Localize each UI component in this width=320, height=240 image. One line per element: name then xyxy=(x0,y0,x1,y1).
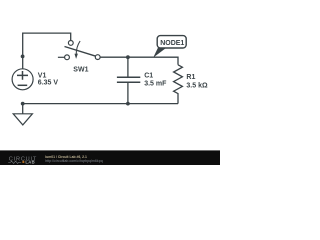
voltage source V1 xyxy=(12,69,33,90)
svg-text:3.5 mF: 3.5 mF xyxy=(144,81,167,88)
node NODE1 junction dot capacitor top xyxy=(126,55,130,59)
footer logo zigzag xyxy=(8,161,21,163)
footer bar xyxy=(0,150,220,165)
node A junction dot on V1 top wire xyxy=(21,55,25,59)
schematic background xyxy=(0,0,220,165)
footer logo orange mark xyxy=(22,161,24,163)
capacitor C1 xyxy=(117,77,140,82)
svg-text:6.35 V: 6.35 V xyxy=(38,80,59,87)
wire switch output to resistor top xyxy=(100,57,178,65)
svg-text:SW1: SW1 xyxy=(73,67,88,74)
svg-text:3.5 kΩ: 3.5 kΩ xyxy=(186,82,208,89)
wire capacitor bottom branch xyxy=(127,83,129,104)
wire top-left: V1 top up and right to switch pole xyxy=(23,33,71,69)
ground xyxy=(13,114,32,125)
toggle arrow xyxy=(76,41,80,54)
junction dot ground xyxy=(21,102,25,106)
resistor R1 xyxy=(174,65,183,104)
svg-text:http://circuitlab.com/c/hqrbpq: http://circuitlab.com/c/hqrbpqlm6kpq xyxy=(45,159,103,163)
svg-text:R1: R1 xyxy=(186,74,195,81)
svg-text:LAB: LAB xyxy=(25,160,35,165)
svg-text:C1: C1 xyxy=(144,72,153,79)
left throw terminal + stub xyxy=(58,56,65,58)
right throw terminal xyxy=(95,55,100,60)
node NODE1 callout tail xyxy=(153,47,167,57)
junction dot capacitor bottom xyxy=(126,102,130,106)
node NODE1 callout box xyxy=(157,36,186,48)
svg-text:V1: V1 xyxy=(38,73,47,80)
wire capacitor top branch xyxy=(127,57,129,76)
pole terminal xyxy=(68,41,73,46)
svg-text:NODE1: NODE1 xyxy=(160,40,184,47)
blade xyxy=(65,47,96,57)
switch SW1 xyxy=(58,41,100,60)
wire bottom rail xyxy=(23,103,178,105)
wire ground stem xyxy=(22,104,24,114)
